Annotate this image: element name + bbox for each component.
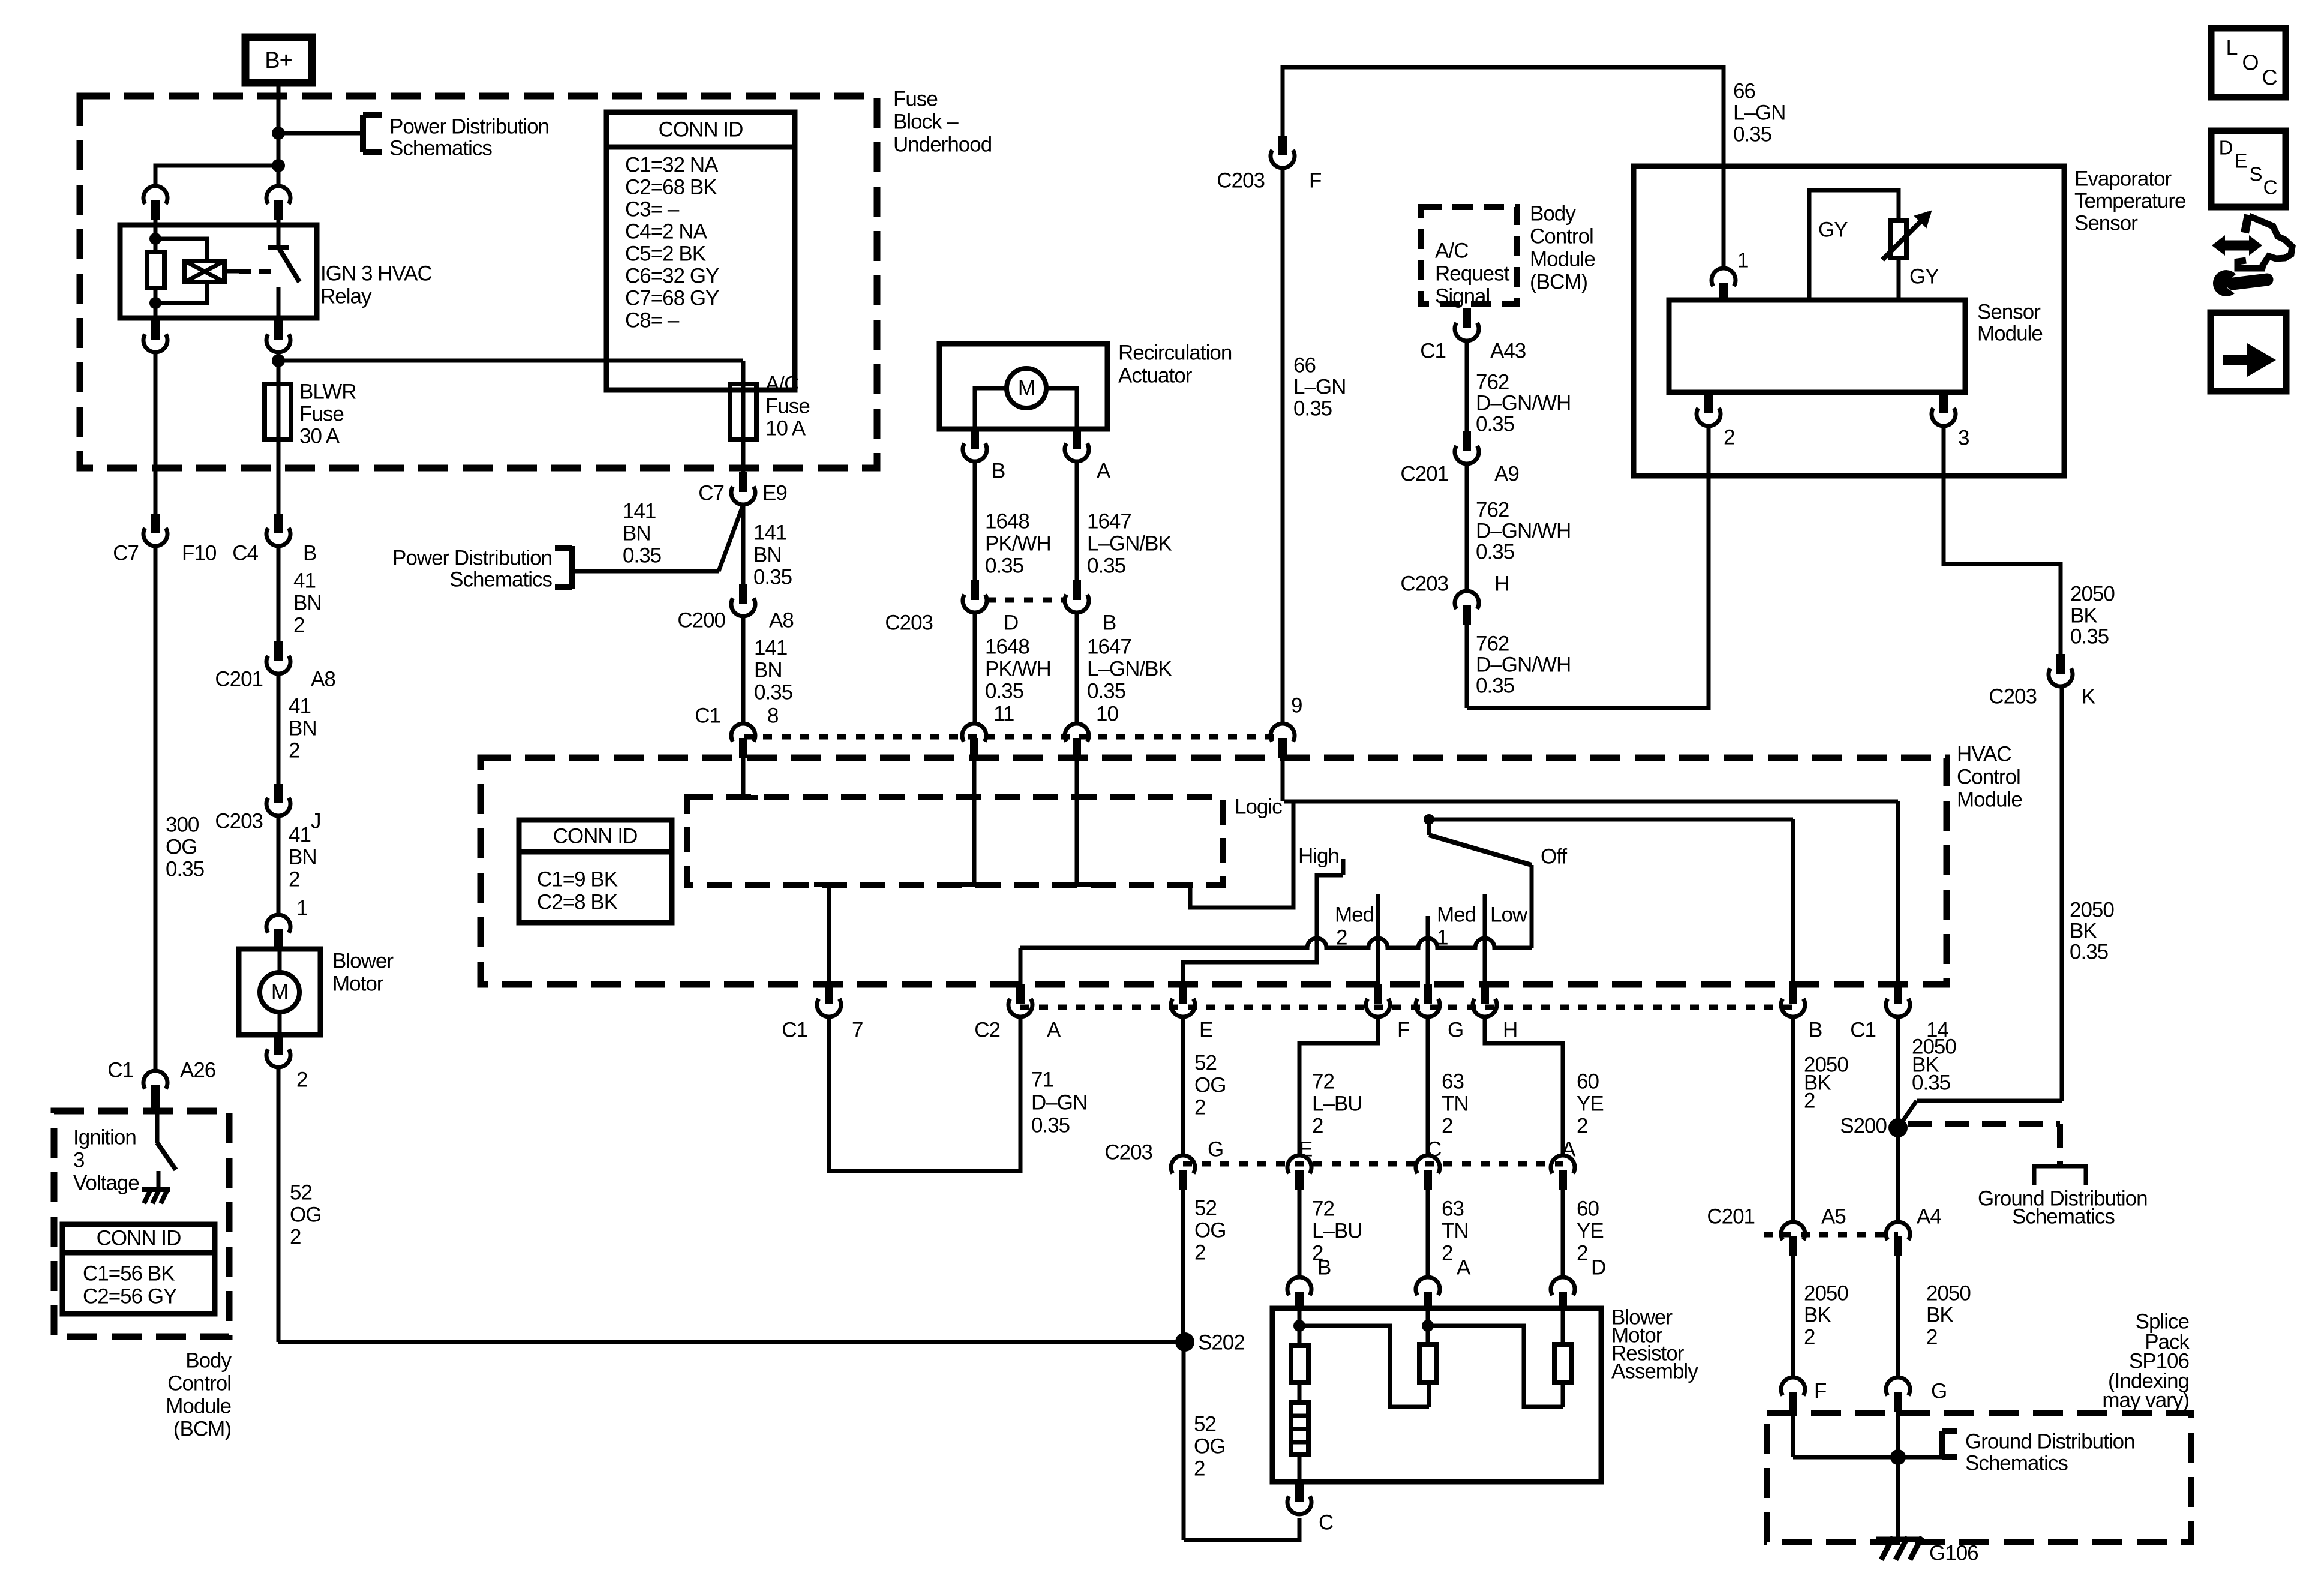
svg-text:C4=2 NA: C4=2 NA: [625, 220, 708, 243]
svg-text:B: B: [303, 541, 316, 565]
svg-text:Module: Module: [1530, 247, 1595, 271]
svg-text:(BCM): (BCM): [1530, 270, 1587, 293]
svg-text:66: 66: [1293, 353, 1316, 377]
svg-text:A: A: [1097, 459, 1111, 482]
svg-text:A4: A4: [1917, 1205, 1941, 1228]
svg-text:2: 2: [1577, 1114, 1587, 1137]
svg-text:Schematics: Schematics: [2012, 1205, 2115, 1228]
svg-text:1647: 1647: [1087, 509, 1131, 533]
svg-text:C203: C203: [1217, 169, 1265, 192]
svg-text:2: 2: [289, 739, 299, 762]
svg-text:C1=56 BK: C1=56 BK: [83, 1262, 175, 1285]
svg-text:0.35: 0.35: [623, 544, 661, 567]
svg-text:BN: BN: [753, 543, 782, 566]
svg-text:0.35: 0.35: [1087, 554, 1125, 577]
svg-text:66: 66: [1733, 79, 1755, 103]
svg-text:Evaporator: Evaporator: [2074, 167, 2172, 190]
svg-text:0.35: 0.35: [754, 680, 792, 704]
svg-text:E: E: [1199, 1018, 1212, 1041]
svg-text:C1: C1: [695, 704, 720, 727]
svg-text:0.35: 0.35: [1912, 1071, 1950, 1094]
svg-text:C5=2 BK: C5=2 BK: [625, 242, 706, 265]
svg-text:Sensor: Sensor: [1977, 300, 2041, 323]
svg-text:2: 2: [1804, 1325, 1815, 1349]
svg-text:C2=68 BK: C2=68 BK: [625, 175, 717, 199]
svg-text:1: 1: [1737, 248, 1748, 272]
svg-text:C3= –: C3= –: [625, 197, 680, 221]
svg-text:PK/WH: PK/WH: [985, 532, 1051, 555]
svg-text:C2: C2: [974, 1018, 1000, 1041]
svg-text:2050: 2050: [1926, 1281, 1971, 1305]
svg-text:C1: C1: [1420, 339, 1446, 362]
svg-text:L–GN: L–GN: [1733, 101, 1785, 124]
svg-text:0.35: 0.35: [166, 857, 204, 881]
svg-text:52: 52: [290, 1181, 312, 1204]
svg-text:YE: YE: [1577, 1092, 1604, 1115]
svg-text:may vary): may vary): [2102, 1388, 2189, 1412]
svg-text:11: 11: [993, 702, 1014, 725]
svg-text:0.35: 0.35: [1293, 397, 1332, 420]
svg-text:2: 2: [1336, 926, 1347, 949]
svg-text:C: C: [2262, 65, 2277, 90]
svg-text:2: 2: [1194, 1241, 1205, 1264]
svg-text:A43: A43: [1490, 339, 1526, 362]
svg-text:TN: TN: [1442, 1219, 1469, 1242]
svg-text:HVAC: HVAC: [1957, 742, 2011, 766]
svg-text:PK/WH: PK/WH: [985, 657, 1051, 680]
svg-text:Ignition: Ignition: [73, 1125, 136, 1149]
svg-text:0.35: 0.35: [985, 554, 1023, 577]
svg-text:0.35: 0.35: [2070, 625, 2109, 648]
svg-text:Request: Request: [1435, 262, 1510, 285]
svg-text:BN: BN: [293, 591, 322, 614]
svg-text:C201: C201: [1400, 462, 1448, 485]
svg-text:D–GN/WH: D–GN/WH: [1476, 391, 1571, 415]
svg-text:52: 52: [1194, 1196, 1217, 1220]
svg-text:D–GN/WH: D–GN/WH: [1476, 519, 1571, 542]
svg-text:Body: Body: [185, 1349, 232, 1372]
svg-text:E9: E9: [762, 481, 787, 505]
svg-text:2: 2: [1194, 1095, 1205, 1119]
svg-text:Module: Module: [166, 1394, 231, 1418]
svg-text:2: 2: [1804, 1089, 1815, 1112]
svg-text:141: 141: [754, 636, 787, 659]
svg-text:O: O: [2242, 50, 2258, 75]
svg-text:C203: C203: [1989, 685, 2037, 708]
svg-text:C2=8 BK: C2=8 BK: [537, 890, 618, 914]
svg-text:2050: 2050: [2070, 582, 2115, 605]
svg-text:(BCM): (BCM): [173, 1417, 231, 1440]
svg-text:B: B: [992, 459, 1005, 482]
svg-text:A9: A9: [1494, 462, 1519, 485]
svg-text:Fuse: Fuse: [299, 402, 344, 425]
svg-text:A8: A8: [769, 608, 794, 632]
svg-text:High: High: [1298, 844, 1339, 867]
svg-text:C: C: [2263, 176, 2277, 199]
svg-text:BK: BK: [2070, 604, 2097, 627]
svg-text:60: 60: [1577, 1070, 1599, 1093]
svg-text:BLWR: BLWR: [299, 380, 356, 403]
svg-text:1647: 1647: [1087, 635, 1131, 658]
svg-text:Schematics: Schematics: [389, 136, 492, 160]
svg-text:2: 2: [296, 1068, 307, 1091]
svg-text:J: J: [311, 809, 321, 833]
svg-text:0.35: 0.35: [1733, 122, 1771, 146]
svg-text:Actuator: Actuator: [1118, 364, 1193, 387]
svg-text:C1=9 BK: C1=9 BK: [537, 867, 618, 891]
svg-text:0.35: 0.35: [1476, 412, 1514, 436]
svg-text:H: H: [1494, 572, 1509, 595]
svg-text:72: 72: [1312, 1197, 1334, 1220]
svg-text:D: D: [2219, 137, 2233, 159]
svg-text:D–GN/WH: D–GN/WH: [1476, 653, 1571, 676]
svg-text:Relay: Relay: [320, 284, 372, 308]
svg-text:Motor: Motor: [332, 972, 384, 995]
svg-text:L–BU: L–BU: [1312, 1092, 1362, 1115]
svg-text:Low: Low: [1490, 903, 1528, 926]
svg-text:8: 8: [767, 704, 778, 727]
svg-text:A5: A5: [1821, 1205, 1846, 1228]
svg-text:B: B: [1317, 1256, 1331, 1279]
svg-text:C203: C203: [215, 809, 263, 833]
svg-text:A26: A26: [180, 1058, 215, 1082]
svg-text:63: 63: [1442, 1070, 1464, 1093]
svg-text:L–GN/BK: L–GN/BK: [1087, 657, 1172, 680]
svg-text:C7=68 GY: C7=68 GY: [625, 286, 719, 310]
svg-text:A/C: A/C: [1435, 239, 1468, 262]
svg-text:Med: Med: [1437, 903, 1476, 926]
svg-text:1: 1: [296, 896, 307, 920]
svg-text:BK: BK: [1804, 1303, 1831, 1326]
svg-text:TN: TN: [1442, 1092, 1469, 1115]
svg-text:C1: C1: [782, 1018, 807, 1041]
svg-text:YE: YE: [1577, 1219, 1604, 1242]
svg-text:Module: Module: [1957, 788, 2022, 811]
svg-text:Control: Control: [167, 1371, 231, 1395]
svg-text:141: 141: [753, 521, 786, 544]
svg-text:0.35: 0.35: [753, 565, 792, 589]
svg-text:Fuse: Fuse: [893, 87, 938, 110]
svg-text:C201: C201: [1707, 1205, 1755, 1228]
svg-text:2: 2: [290, 1225, 301, 1248]
svg-text:BN: BN: [289, 845, 317, 869]
svg-text:IGN 3 HVAC: IGN 3 HVAC: [320, 262, 432, 285]
svg-text:71: 71: [1031, 1068, 1053, 1091]
svg-text:Sensor: Sensor: [2074, 211, 2138, 235]
svg-text:Control: Control: [1530, 224, 1593, 248]
svg-text:G: G: [1931, 1379, 1947, 1403]
svg-text:BN: BN: [754, 658, 782, 682]
svg-text:L–GN/BK: L–GN/BK: [1087, 532, 1172, 555]
svg-text:0.35: 0.35: [2070, 940, 2108, 963]
svg-text:Logic: Logic: [1235, 795, 1282, 818]
svg-text:Med: Med: [1335, 903, 1374, 926]
svg-text:3: 3: [73, 1148, 84, 1172]
svg-text:Off: Off: [1541, 845, 1567, 868]
svg-text:Schematics: Schematics: [1965, 1451, 2068, 1475]
svg-text:2: 2: [1442, 1114, 1452, 1137]
svg-text:72: 72: [1312, 1070, 1334, 1093]
svg-text:1648: 1648: [985, 635, 1029, 658]
svg-text:B: B: [1809, 1018, 1822, 1041]
svg-text:C203: C203: [1104, 1140, 1152, 1164]
svg-text:C: C: [1319, 1511, 1333, 1534]
svg-text:1648: 1648: [985, 509, 1029, 533]
svg-text:10: 10: [1096, 702, 1118, 725]
svg-text:CONN ID: CONN ID: [97, 1226, 181, 1250]
svg-text:C8= –: C8= –: [625, 308, 680, 332]
svg-text:GY: GY: [1818, 218, 1848, 241]
svg-text:CONN ID: CONN ID: [553, 824, 638, 848]
svg-text:2: 2: [1577, 1241, 1587, 1265]
svg-text:60: 60: [1577, 1197, 1599, 1220]
svg-text:Power Distribution: Power Distribution: [392, 546, 552, 569]
svg-text:C7: C7: [698, 481, 724, 505]
svg-text:52: 52: [1194, 1051, 1217, 1074]
svg-text:B: B: [1103, 611, 1116, 634]
svg-text:BN: BN: [623, 521, 651, 545]
svg-text:C6=32 GY: C6=32 GY: [625, 264, 719, 287]
svg-text:C1: C1: [1850, 1018, 1876, 1041]
svg-text:G: G: [1448, 1018, 1463, 1041]
svg-text:762: 762: [1476, 370, 1509, 394]
svg-text:C203: C203: [1400, 572, 1448, 595]
svg-text:3: 3: [1958, 426, 1969, 449]
svg-text:Blower: Blower: [332, 949, 394, 972]
svg-text:2050: 2050: [1804, 1281, 1848, 1305]
svg-text:L–BU: L–BU: [1312, 1219, 1362, 1242]
svg-text:2: 2: [1312, 1114, 1323, 1137]
svg-text:41: 41: [293, 569, 316, 592]
svg-text:41: 41: [289, 823, 311, 846]
svg-text:Control: Control: [1957, 765, 2020, 788]
svg-text:M: M: [271, 980, 288, 1004]
svg-text:Fuse: Fuse: [765, 394, 810, 418]
svg-text:OG: OG: [290, 1203, 321, 1226]
svg-text:41: 41: [289, 694, 311, 718]
svg-text:Block –: Block –: [893, 110, 959, 133]
svg-text:BK: BK: [2070, 919, 2097, 942]
svg-text:A: A: [1047, 1018, 1061, 1041]
svg-text:141: 141: [623, 499, 656, 523]
svg-text:300: 300: [166, 813, 199, 836]
svg-text:762: 762: [1476, 632, 1509, 655]
svg-text:2050: 2050: [2070, 898, 2114, 921]
svg-text:H: H: [1503, 1018, 1517, 1041]
svg-text:9: 9: [1291, 694, 1302, 717]
svg-text:GY: GY: [1909, 265, 1939, 288]
svg-text:C203: C203: [885, 611, 933, 634]
svg-text:7: 7: [852, 1018, 863, 1041]
svg-text:Recirculation: Recirculation: [1118, 341, 1232, 364]
svg-text:10 A: 10 A: [765, 416, 806, 440]
svg-text:B+: B+: [265, 48, 292, 73]
svg-text:G106: G106: [1929, 1541, 1978, 1565]
svg-text:A: A: [1457, 1256, 1471, 1279]
svg-text:C1: C1: [107, 1058, 133, 1082]
svg-text:C201: C201: [215, 667, 263, 691]
svg-text:OG: OG: [1194, 1073, 1226, 1097]
svg-text:OG: OG: [1194, 1434, 1225, 1458]
svg-text:C4: C4: [232, 541, 258, 565]
svg-text:C200: C200: [677, 608, 725, 632]
svg-text:Signal: Signal: [1435, 284, 1490, 308]
svg-text:A8: A8: [311, 667, 335, 691]
svg-text:C7: C7: [113, 541, 139, 565]
svg-text:D–GN: D–GN: [1031, 1091, 1087, 1114]
svg-text:2: 2: [1194, 1457, 1205, 1480]
svg-text:S200: S200: [1840, 1114, 1887, 1137]
svg-text:Schematics: Schematics: [449, 568, 552, 591]
svg-text:F: F: [1309, 169, 1321, 192]
svg-text:CONN ID: CONN ID: [659, 118, 743, 141]
svg-text:L–GN: L–GN: [1293, 375, 1346, 398]
svg-text:F: F: [1814, 1379, 1826, 1403]
svg-text:Voltage: Voltage: [73, 1171, 139, 1194]
svg-text:762: 762: [1476, 498, 1509, 521]
svg-text:M: M: [1018, 376, 1035, 400]
svg-text:Power Distribution: Power Distribution: [389, 115, 549, 138]
svg-text:Underhood: Underhood: [893, 133, 992, 156]
svg-text:2: 2: [289, 867, 299, 891]
svg-text:C2=56 GY: C2=56 GY: [83, 1284, 177, 1308]
svg-text:Body: Body: [1530, 202, 1576, 225]
svg-text:BK: BK: [1926, 1303, 1953, 1326]
svg-text:S202: S202: [1198, 1331, 1245, 1354]
svg-text:0.35: 0.35: [985, 679, 1023, 703]
svg-text:Ground Distribution: Ground Distribution: [1965, 1430, 2135, 1453]
svg-text:OG: OG: [1194, 1218, 1226, 1242]
svg-text:F10: F10: [182, 541, 217, 565]
svg-text:C1=32 NA: C1=32 NA: [625, 153, 719, 176]
svg-text:K: K: [2082, 685, 2095, 708]
svg-text:G: G: [1208, 1137, 1223, 1161]
svg-text:D: D: [1004, 611, 1018, 634]
svg-text:S: S: [2249, 163, 2262, 185]
svg-text:2: 2: [1724, 425, 1734, 449]
svg-text:OG: OG: [166, 835, 197, 858]
svg-text:2: 2: [1926, 1325, 1937, 1349]
svg-text:0.35: 0.35: [1476, 540, 1514, 563]
svg-text:BN: BN: [289, 716, 317, 740]
svg-text:30 A: 30 A: [299, 424, 340, 448]
svg-text:2: 2: [293, 613, 304, 637]
svg-text:D: D: [1591, 1256, 1605, 1279]
svg-text:F: F: [1397, 1018, 1409, 1041]
svg-text:L: L: [2226, 35, 2237, 60]
svg-text:Temperature: Temperature: [2074, 189, 2185, 212]
svg-text:0.35: 0.35: [1476, 674, 1514, 697]
svg-text:0.35: 0.35: [1031, 1113, 1070, 1137]
svg-text:Module: Module: [1977, 322, 2043, 345]
svg-text:1: 1: [1437, 926, 1448, 949]
svg-text:52: 52: [1194, 1412, 1216, 1436]
svg-text:63: 63: [1442, 1197, 1464, 1220]
svg-text:Assembly: Assembly: [1611, 1359, 1698, 1383]
svg-text:2: 2: [1442, 1241, 1452, 1265]
svg-text:0.35: 0.35: [1087, 679, 1125, 703]
svg-text:E: E: [2234, 150, 2247, 172]
